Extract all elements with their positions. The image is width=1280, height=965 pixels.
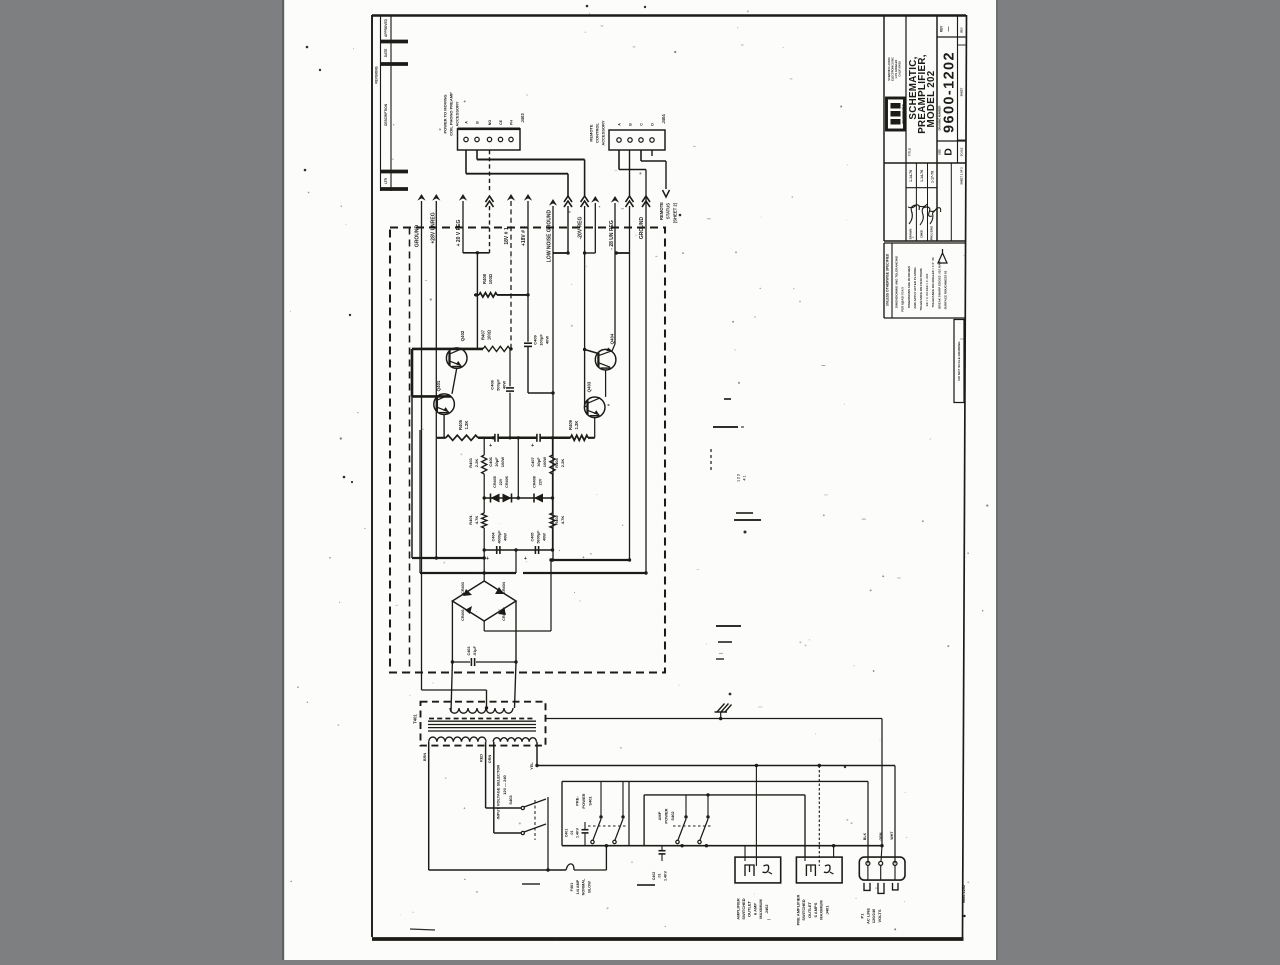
svg-text:GROUND: GROUND (639, 217, 645, 240)
svg-text:OUTLET: OUTLET (807, 901, 812, 918)
svg-text:100Ω: 100Ω (487, 329, 492, 340)
svg-text:C409: C409 (532, 334, 537, 344)
svg-text:S403: S403 (508, 795, 513, 805)
svg-text:+28V UNREG: +28V UNREG (430, 212, 436, 243)
svg-text:40W: 40W (542, 533, 546, 541)
svg-text:T401: T401 (412, 714, 417, 724)
svg-text:1.4KV: 1.4KV (575, 827, 579, 838)
svg-text:C404: C404 (491, 532, 495, 542)
svg-text:J402: J402 (764, 904, 769, 914)
svg-text:AMPLIFIER: AMPLIFIER (735, 898, 740, 920)
svg-text:100μF: 100μF (538, 334, 543, 346)
svg-text:NORMAL: NORMAL (582, 878, 586, 895)
svg-text:C402: C402 (652, 872, 656, 881)
svg-text:CR401: CR401 (461, 609, 465, 621)
svg-text:J401: J401 (824, 905, 829, 915)
svg-text:LOS ANGELES: LOS ANGELES (894, 59, 898, 78)
svg-text:CR402: CR402 (502, 609, 506, 621)
svg-text:GRN: GRN (879, 832, 883, 840)
svg-text:.01: .01 (570, 831, 574, 836)
svg-text:4.7K: 4.7K (474, 516, 479, 525)
svg-text:2.2K: 2.2K (474, 459, 479, 468)
svg-text:TITLE: TITLE (908, 148, 912, 156)
svg-text:UNLESS OTHERWISE SPECIFIED: UNLESS OTHERWISE SPECIFIED (885, 253, 889, 306)
svg-text:20μF: 20μF (494, 457, 499, 467)
svg-text:RED: RED (480, 754, 484, 762)
svg-text:D: D (650, 123, 654, 126)
svg-text:R402: R402 (554, 514, 559, 524)
svg-text:DRAWING NUMBER: DRAWING NUMBER (937, 106, 941, 131)
svg-text:+ 20 V REG: + 20 V REG (456, 219, 462, 246)
svg-text:100W: 100W (500, 457, 505, 468)
svg-text:1/4 AMP: 1/4 AMP (576, 879, 580, 894)
svg-text:NO: NO (488, 120, 492, 126)
svg-text:1-14-76: 1-14-76 (909, 170, 913, 182)
svg-text:DO NOT SCALE DRAWING: DO NOT SCALE DRAWING (957, 341, 961, 381)
svg-text:APPROVED: APPROVED (384, 18, 388, 37)
svg-text:P1: P1 (859, 913, 864, 919)
svg-text:Q403: Q403 (586, 381, 591, 392)
svg-text:1-14-76: 1-14-76 (920, 170, 924, 182)
svg-text:CR403: CR403 (461, 582, 465, 594)
svg-text:PRE AMPLIFIER: PRE AMPLIFIER (795, 895, 800, 926)
svg-text:PRE-: PRE- (575, 796, 580, 806)
svg-text:OUTLET: OUTLET (747, 900, 752, 917)
svg-text:CR404: CR404 (502, 581, 506, 594)
svg-text:500μF: 500μF (495, 379, 500, 391)
svg-text:SWITCHED: SWITCHED (741, 898, 746, 919)
svg-text:40W: 40W (503, 533, 507, 541)
svg-text:1.2K: 1.2K (464, 421, 469, 430)
svg-text:R408: R408 (482, 273, 487, 284)
svg-text:AMP: AMP (657, 811, 662, 820)
svg-text:COIL PHONO PREAMP: COIL PHONO PREAMP (449, 92, 454, 136)
svg-text:R405: R405 (458, 419, 463, 430)
svg-text:6 AMP: 6 AMP (752, 903, 757, 915)
svg-text:.01μF: .01μF (473, 645, 477, 656)
svg-text:CR405: CR405 (493, 476, 497, 488)
svg-text:J404: J404 (661, 114, 666, 124)
svg-text:Q404: Q404 (609, 333, 614, 344)
svg-text:S401: S401 (587, 796, 592, 806)
svg-text:22V: 22V (539, 478, 543, 485)
svg-text:C401: C401 (564, 829, 568, 838)
svg-text:TOLERANCE ON FRACTIONS: TOLERANCE ON FRACTIONS (919, 268, 923, 310)
svg-text:40W: 40W (501, 381, 506, 389)
svg-text:REMOTE: REMOTE (588, 124, 593, 141)
svg-text:+: + (524, 556, 527, 562)
svg-text:-20V REG: -20V REG (578, 217, 584, 240)
svg-text:XX = ± .03 XXX = ± .010: XX = ± .03 XXX = ± .010 (925, 273, 929, 306)
svg-text:WHT: WHT (890, 831, 894, 840)
svg-text:C: C (639, 123, 643, 126)
svg-text:+18V # 2: +18V # 2 (521, 226, 527, 246)
svg-text:120/240: 120/240 (871, 908, 876, 923)
svg-text:SIZE: SIZE (937, 149, 941, 155)
svg-text:AC LINE: AC LINE (865, 908, 870, 924)
svg-text:SWITCHED: SWITCHED (801, 899, 806, 920)
svg-text:.01: .01 (658, 874, 662, 879)
svg-text:POWER: POWER (581, 793, 586, 808)
svg-text:1 2 3: 1 2 3 (736, 474, 740, 482)
svg-text:Q401: Q401 (436, 380, 441, 391)
svg-text:ACCESSORY: ACCESSORY (600, 120, 605, 146)
svg-text:DIMENSIONS ARE IN INCHES: DIMENSIONS ARE IN INCHES (907, 266, 911, 308)
svg-text:C407: C407 (530, 456, 535, 466)
svg-text:+: + (531, 443, 534, 449)
svg-text:REV: REV (959, 27, 963, 33)
svg-text:18V # 1: 18V # 1 (504, 227, 510, 244)
svg-text:A: A (464, 121, 468, 124)
svg-text:SCALE: SCALE (959, 147, 963, 156)
svg-text:1.4KV: 1.4KV (663, 870, 667, 881)
svg-text:POWER TO MOVING: POWER TO MOVING (443, 94, 448, 133)
svg-text:LTR: LTR (384, 177, 388, 184)
svg-text:C405: C405 (530, 532, 534, 541)
svg-text:INPUT VOLTAGE SELECTOR: INPUT VOLTAGE SELECTOR (496, 765, 501, 820)
svg-text:REV: REV (940, 25, 944, 32)
svg-text:30μF: 30μF (536, 457, 541, 467)
svg-text:DRAWN: DRAWN (909, 229, 913, 240)
svg-text:A: A (617, 123, 621, 126)
svg-text:TOLERANCE ON ANGLES = ± 0° 30: TOLERANCE ON ANGLES = ± 0° 30 (931, 257, 935, 307)
svg-text:YEL: YEL (530, 762, 534, 770)
svg-text:2.2K: 2.2K (560, 459, 565, 468)
svg-text:C408: C408 (489, 379, 494, 389)
svg-text:+: + (489, 443, 492, 449)
svg-text:D: D (942, 148, 954, 156)
svg-text:40W: 40W (544, 336, 549, 344)
svg-text:SCIENTIFIC AUDIO: SCIENTIFIC AUDIO (887, 57, 891, 80)
svg-text:BLOW: BLOW (587, 881, 591, 893)
svg-text:ACCESSORY: ACCESSORY (455, 101, 460, 127)
svg-text:MAXIMUM: MAXIMUM (819, 900, 824, 920)
svg-text:ELECTRONICS INC: ELECTRONICS INC (891, 57, 895, 81)
svg-text:- 28 UN REG: - 28 UN REG (609, 220, 615, 250)
svg-text:R401: R401 (468, 514, 473, 524)
svg-text:9600-1202: 9600-1202 (962, 885, 966, 903)
svg-text:5600μF: 5600μF (536, 530, 540, 544)
svg-text:6 AMPS: 6 AMPS (813, 902, 818, 917)
svg-text:PER USASI Y14.5: PER USASI Y14.5 (901, 287, 905, 312)
svg-text:F401: F401 (570, 883, 574, 892)
svg-text:SHEET 1 OF 2: SHEET 1 OF 2 (959, 167, 963, 185)
svg-text:100Ω: 100Ω (488, 273, 493, 284)
svg-text:MAXIMUM: MAXIMUM (758, 899, 763, 919)
svg-text:GROUND: GROUND (415, 225, 421, 248)
svg-text:CE: CE (499, 119, 503, 125)
svg-text:CONTROL: CONTROL (594, 123, 599, 143)
svg-text:+: + (486, 556, 489, 562)
svg-text:Q402: Q402 (460, 330, 465, 341)
svg-text:4 1: 4 1 (742, 476, 746, 481)
svg-text:C403: C403 (467, 646, 471, 655)
svg-text:9600-1202: 9600-1202 (942, 51, 958, 133)
svg-text:DESCRIPTION: DESCRIPTION (384, 103, 388, 125)
svg-text:VOLTS: VOLTS (877, 909, 882, 922)
svg-text:POWER: POWER (664, 808, 669, 823)
svg-text:100W: 100W (542, 457, 547, 468)
svg-text:MODEL 202: MODEL 202 (926, 70, 937, 127)
svg-text:—: — (946, 27, 952, 32)
svg-text:LOW NOISE GROUND: LOW NOISE GROUND (546, 210, 552, 263)
svg-text:DIMENSIONING AND TOLERANCING: DIMENSIONING AND TOLERANCING (895, 255, 899, 308)
svg-text:BRN: BRN (423, 753, 427, 761)
svg-text:S402: S402 (670, 811, 675, 821)
svg-text:REMOTE: REMOTE (659, 202, 664, 220)
svg-text:120 — 240: 120 — 240 (502, 774, 507, 794)
svg-text:J403: J403 (520, 113, 525, 123)
svg-text:(SHEET 2): (SHEET 2) (672, 202, 677, 223)
svg-text:DATE: DATE (384, 49, 388, 57)
svg-text:AND APPLY AFTER PLATING: AND APPLY AFTER PLATING (913, 267, 917, 309)
svg-text:PH: PH (509, 120, 513, 125)
svg-text:CR406: CR406 (505, 476, 509, 488)
svg-text:INCORPORATED: INCORPORATED (902, 104, 905, 123)
svg-text:B: B (628, 123, 632, 126)
svg-text:STATUS: STATUS (666, 203, 671, 219)
svg-text:SHEET: SHEET (959, 87, 963, 96)
svg-text:1.2K: 1.2K (574, 421, 579, 430)
svg-text:R407: R407 (481, 329, 486, 340)
svg-text:REVISIONS: REVISIONS (375, 66, 379, 83)
svg-text:R403: R403 (468, 457, 473, 467)
svg-text:CR408: CR408 (533, 476, 537, 488)
svg-text:BREAK SHARP EDGES .010 MAX: BREAK SHARP EDGES .010 MAX (937, 261, 941, 308)
svg-text:ORN: ORN (488, 755, 492, 764)
svg-text:1-17-76: 1-17-76 (930, 171, 934, 183)
svg-text:4000μF: 4000μF (497, 530, 501, 544)
svg-text:CALIF 90016: CALIF 90016 (898, 61, 902, 77)
svg-text:4.7K: 4.7K (560, 516, 565, 525)
svg-text:SURFACE ROUGHNESS 63: SURFACE ROUGHNESS 63 (943, 270, 947, 309)
svg-text:PROJ ENG: PROJ ENG (930, 226, 934, 240)
svg-text:R409: R409 (568, 419, 573, 430)
svg-text:B: B (475, 121, 479, 124)
svg-text:CHKD: CHKD (920, 230, 924, 238)
svg-text:BLK: BLK (863, 832, 867, 840)
svg-text:R404: R404 (554, 457, 559, 467)
svg-text:22V: 22V (499, 478, 503, 485)
svg-text:C406: C406 (488, 456, 493, 466)
